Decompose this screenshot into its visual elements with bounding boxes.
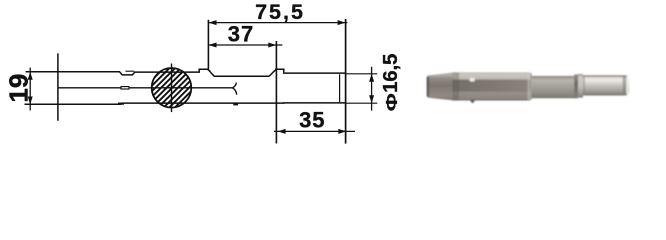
diameter extension tick bottom bbox=[346, 102, 378, 104]
hatched section circle bbox=[152, 68, 192, 108]
photo hex end bright edge bbox=[528, 73, 531, 100]
svg-text:75,5: 75,5 bbox=[255, 0, 305, 24]
svg-text:37: 37 bbox=[228, 22, 254, 47]
svg-text:19: 19 bbox=[3, 74, 33, 103]
diameter extension tick top bbox=[346, 73, 378, 75]
break blob on bottom line left bbox=[118, 103, 124, 105]
arrow 19 bottom bbox=[28, 97, 33, 105]
photo cone tip section bbox=[427, 73, 453, 101]
arrow 75,5 left bbox=[209, 20, 217, 25]
arrow 35 right bbox=[338, 129, 346, 134]
arrow diameter bottom bbox=[369, 95, 374, 103]
photo cylinder left shadow bbox=[583, 75, 585, 95]
photo hex body bbox=[453, 72, 531, 100]
dimension line 19 bbox=[29, 68, 31, 111]
photo neck groove bbox=[574, 74, 578, 98]
left break cut line bbox=[57, 53, 59, 121]
extension line right (75,5 / 35) and cylinder end edge bbox=[345, 19, 347, 144]
photo hex bevel band bbox=[453, 72, 460, 100]
arrow 75,5 right bbox=[338, 20, 346, 25]
shank bottom line bbox=[25, 103, 346, 104]
arrow 19 top bbox=[28, 72, 33, 80]
dimension line diameter 16,5 bbox=[371, 67, 373, 111]
photo hex end dark edge bbox=[530, 73, 531, 99]
extension line left (75,5 / 37) bbox=[207, 20, 209, 71]
photo chamfer highlight notch bbox=[470, 78, 475, 82]
extension line middle (37 / 35) bbox=[275, 41, 277, 144]
photo hex dark middle facet bbox=[453, 80, 531, 92]
cylinder end chamfer line bbox=[339, 74, 341, 102]
svg-text:Φ: Φ bbox=[384, 93, 401, 111]
photo round neck section bbox=[532, 76, 577, 98]
arrow 37 left bbox=[209, 43, 217, 48]
photo cone left end edge bbox=[427, 76, 429, 97]
photo of shank bbox=[427, 72, 629, 103]
break mark dash above top line jog bbox=[125, 70, 134, 72]
photo cylinder bbox=[583, 75, 629, 95]
break box on middle line bbox=[121, 87, 129, 89]
dimension line 37 bbox=[209, 44, 283, 46]
photo cylinder cap edge highlight bbox=[626, 77, 628, 94]
arrow diameter top bbox=[369, 74, 374, 82]
hatch lines bbox=[112, 50, 238, 120]
dimension line 75,5 bbox=[209, 22, 348, 24]
photo collar ring bbox=[578, 74, 583, 98]
shank middle line left segment bbox=[58, 87, 121, 89]
photo cylinder cap chamfer bbox=[623, 76, 627, 96]
dimension line 35 bbox=[274, 130, 355, 132]
centerline end chevron bbox=[232, 83, 236, 95]
photo chamfer dark notch bottom bbox=[470, 100, 476, 103]
break blob on bottom line right bbox=[233, 103, 238, 105]
svg-text:16,5: 16,5 bbox=[379, 54, 402, 93]
section plane line through circle bbox=[171, 64, 173, 113]
arrow 35 left bbox=[278, 129, 286, 134]
shank middle line right segment bbox=[129, 87, 232, 89]
shank top outline with collars and neck groove bbox=[26, 69, 346, 76]
svg-text:35: 35 bbox=[299, 107, 325, 132]
arrow 37 right bbox=[268, 43, 276, 48]
